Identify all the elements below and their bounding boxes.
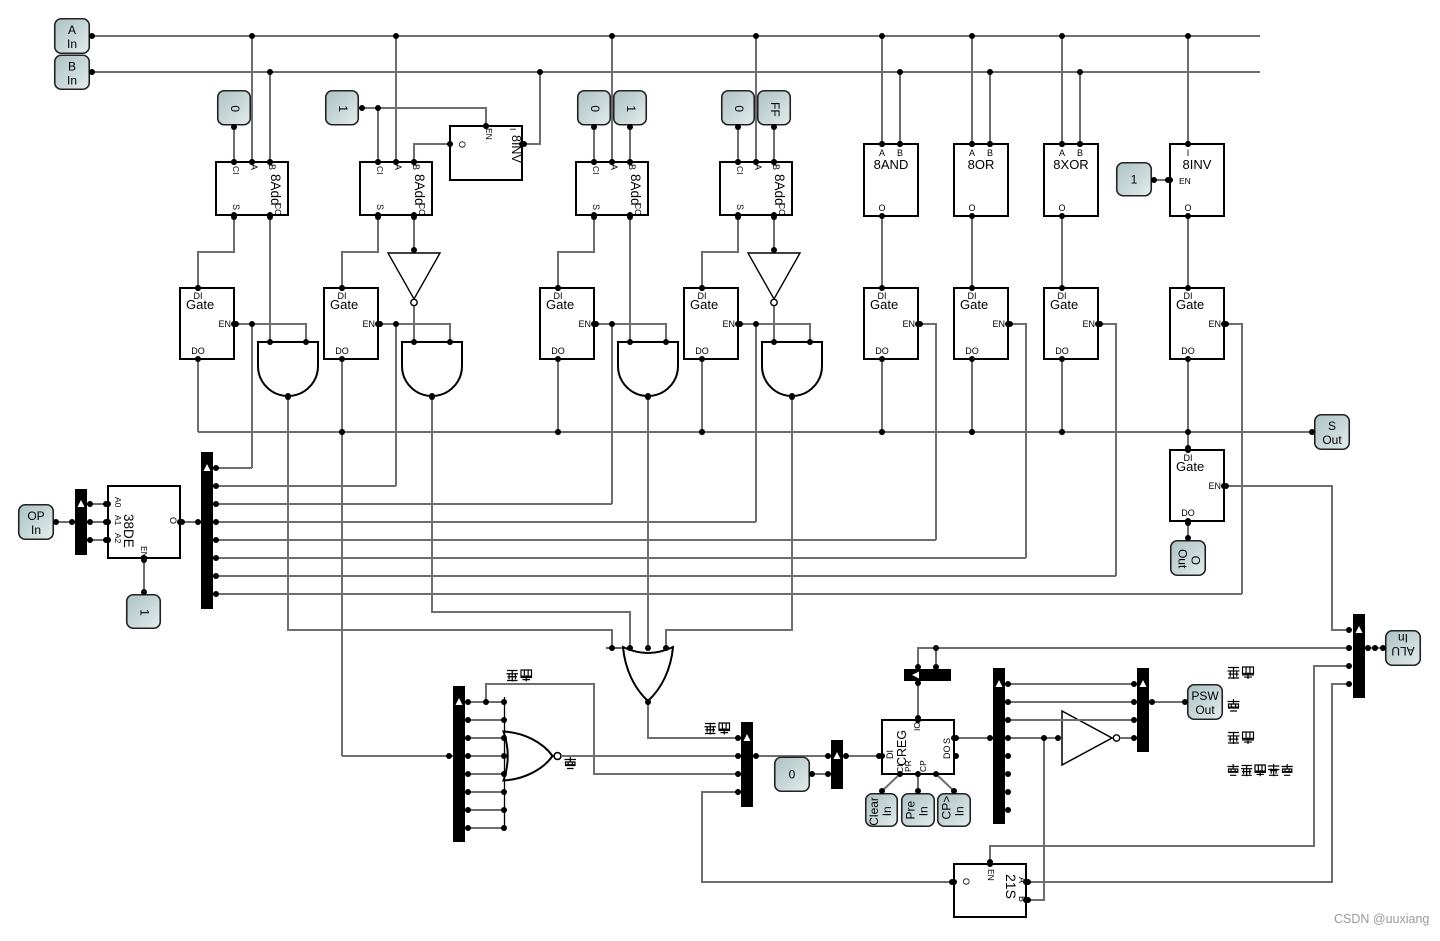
svg-text:8Add: 8Add	[628, 174, 643, 206]
wire const0 to CI3	[593, 126, 595, 162]
svg-text:Gate: Gate	[330, 297, 358, 312]
svg-text:A: A	[393, 164, 403, 170]
wire 8XOR O to Gate DI	[1061, 216, 1063, 288]
tri-state Gate 2	[324, 288, 378, 359]
wire A bus to pin x=972	[971, 36, 973, 144]
wire A bus to pin x=1188	[1187, 36, 1189, 144]
svg-text:8Add: 8Add	[268, 174, 283, 206]
wire splitter to 38DE A2	[87, 539, 108, 541]
wire 38DE EN to const 1	[143, 558, 145, 594]
wire AND4 out to OR input 4	[666, 396, 792, 648]
logic block 8INV	[1170, 144, 1224, 216]
wire B bus to pin x=990	[989, 72, 991, 144]
constant 1 (8INV enable)	[1117, 163, 1152, 196]
constant 0 (pair 3)	[578, 91, 611, 125]
wire B bus	[90, 71, 1260, 73]
label 零 (zero) rotated	[565, 757, 577, 769]
svg-text:A: A	[753, 164, 763, 170]
svg-text:Gate: Gate	[1176, 459, 1204, 474]
tri-state Gate 5	[864, 288, 918, 359]
svg-text:EN: EN	[484, 128, 494, 140]
constant 0 (PSW pad)	[775, 757, 810, 791]
svg-text:OP: OP	[27, 509, 44, 523]
tri-state Gate 4	[684, 288, 738, 359]
svg-text:EN: EN	[1208, 319, 1221, 329]
svg-text:DO: DO	[551, 346, 565, 356]
svg-text:EN: EN	[992, 319, 1005, 329]
svg-text:EN: EN	[578, 319, 591, 329]
logic block 8AND	[864, 144, 918, 216]
input port CP> In	[938, 794, 971, 827]
svg-text:EN: EN	[902, 319, 915, 329]
svg-text:S: S	[231, 204, 241, 210]
wire PSW nibble to pad splitter	[753, 755, 831, 757]
wire B bus to pin x=900	[899, 72, 901, 144]
output port S Out	[1315, 415, 1350, 450]
wire Gate4 EN net	[738, 324, 810, 342]
svg-text:In: In	[67, 73, 77, 87]
wire zero splitter row7	[465, 809, 504, 811]
NOR gate (zero detect)	[504, 697, 562, 831]
wire status bit3 to PSW-out splitter	[1005, 719, 1134, 721]
splitter status 8-bit	[993, 668, 1005, 824]
wire status bit1 to PSW-out splitter	[1005, 683, 1134, 685]
constant 1 (pair 3)	[614, 91, 647, 125]
inverter NOT (carry pair 4)	[748, 253, 800, 306]
svg-text:Out: Out	[1322, 433, 1342, 447]
svg-text:DO: DO	[1181, 346, 1195, 356]
wire Gate7 DO to S bus	[1061, 359, 1063, 432]
wire Gate4 DO to S bus	[701, 359, 703, 432]
wire const1 to 8INV EN	[1152, 179, 1170, 181]
svg-text:CI: CI	[735, 166, 745, 175]
wire 8INV O to Gate DI	[1187, 216, 1189, 288]
wire 8OR O to Gate DI	[971, 216, 973, 288]
wire zero splitter row6	[465, 791, 504, 793]
svg-text:1: 1	[138, 609, 152, 616]
adder 8Add #2	[360, 162, 432, 216]
wire Pre In to CREG PR	[917, 774, 919, 791]
wire A bus to pin x=612	[611, 36, 613, 162]
tri-state Gate 1	[180, 288, 234, 359]
splitter zero-detect 8-bit	[453, 686, 465, 842]
wire to CI2	[377, 108, 379, 162]
wire Gate8 EN to decoder row 8	[1224, 324, 1242, 594]
svg-text:A: A	[68, 23, 76, 37]
constant 1 (pair 2)	[326, 91, 359, 125]
wire Gate3 DO to S bus	[557, 359, 559, 432]
svg-text:ALU: ALU	[1391, 644, 1414, 658]
svg-text:DO: DO	[965, 346, 979, 356]
svg-text:B: B	[627, 164, 637, 170]
wire splitter to 38DE A0	[87, 503, 108, 505]
svg-text:21S: 21S	[1003, 874, 1019, 899]
input port ALU In	[1386, 631, 1421, 666]
wire parity tap (row1 to PSW splitter)	[486, 684, 741, 774]
svg-text:8XOR: 8XOR	[1053, 157, 1088, 172]
wire S4 to Gate4 DI	[702, 215, 738, 288]
svg-text:Out: Out	[1176, 549, 1190, 569]
svg-text:0: 0	[228, 105, 242, 112]
svg-text:0: 0	[588, 105, 602, 112]
svg-text:EN: EN	[1179, 176, 1191, 186]
svg-text:Pre: Pre	[904, 800, 918, 819]
splitter decoder 8-bit	[201, 452, 213, 609]
svg-text:S: S	[735, 204, 745, 210]
wire Gate5 EN to decoder row 5	[918, 324, 936, 540]
input port OP In	[19, 505, 54, 540]
svg-text:CI: CI	[231, 166, 241, 175]
wire AND1 out to OR input 1	[288, 396, 612, 648]
svg-text:DO: DO	[695, 346, 709, 356]
adder 8Add #3	[576, 162, 648, 216]
tri-state Gate 3	[540, 288, 594, 359]
wire EN4 to decoder row 4	[755, 324, 757, 522]
svg-text:EN: EN	[986, 869, 996, 881]
wire 8AND O to Gate DI	[881, 216, 883, 288]
wire Gate1 EN net	[234, 324, 306, 342]
wire zero splitter row3	[465, 737, 504, 739]
svg-text:0: 0	[732, 105, 746, 112]
wire B bus to pin x=270	[269, 72, 271, 162]
label 溢出 (overflow flag)	[1228, 667, 1255, 679]
svg-text:IO: IO	[912, 722, 922, 731]
wire A bus	[90, 35, 1260, 37]
wire zero splitter row1	[465, 701, 504, 703]
svg-text:O: O	[961, 878, 971, 885]
wire inverter out to AND2	[413, 306, 415, 342]
constant 0 (pair 1)	[218, 91, 251, 125]
input port Pre In	[902, 794, 935, 827]
svg-text:1: 1	[1131, 172, 1138, 186]
wire zero splitter row4	[465, 755, 504, 757]
svg-text:38DE: 38DE	[121, 514, 136, 548]
wire decoder row y=576	[213, 575, 1116, 577]
svg-text:8OR: 8OR	[968, 157, 995, 172]
wire S1 to Gate1 DI	[198, 215, 234, 288]
inverter NOT (carry pair 2)	[388, 253, 440, 306]
wire Gate6 EN to decoder row 6	[1008, 324, 1026, 558]
wire const0 to pad splitter	[810, 773, 831, 775]
wire EN1 to decoder row 1	[251, 324, 253, 468]
svg-text:FF: FF	[768, 102, 782, 117]
svg-text:CI: CI	[375, 166, 385, 175]
svg-text:I: I	[508, 128, 518, 130]
wire decoder row y=540	[213, 539, 936, 541]
tri-state Gate 9 (output)	[1170, 450, 1224, 521]
8INV B-inverter (pair 2)	[450, 126, 523, 180]
wire const1 to CI2 and 8INV EN	[360, 108, 486, 126]
svg-text:O: O	[1058, 203, 1065, 213]
wire const0 to CI4	[737, 126, 739, 162]
label 零 (zero flag)	[1228, 699, 1240, 711]
svg-text:8Add: 8Add	[772, 174, 787, 206]
wire CP> In to CREG CP	[936, 774, 954, 791]
wire S2 to Gate2 DI	[342, 215, 378, 288]
wire CO4 to inverter	[773, 215, 775, 252]
svg-text:DO: DO	[875, 346, 889, 356]
svg-text:CP>: CP>	[940, 796, 954, 820]
wire NOR out to PSW splitter (zero bit)	[561, 755, 741, 757]
wire PSW byte to CREG DI	[843, 755, 882, 757]
label 中断允许位 (interrupt enable bit)	[1228, 764, 1293, 776]
wire EN3 to decoder row 3	[611, 324, 613, 504]
wire const1 to B3	[629, 126, 631, 162]
OR gate (overflow detect)	[606, 647, 673, 701]
wire constFF to B4	[773, 126, 775, 162]
wire zero splitter row5	[465, 773, 504, 775]
wire Gate2 DO to S bus and zero splitter	[341, 359, 343, 756]
decoder 38DE	[108, 486, 180, 558]
selector 21S	[954, 864, 1027, 917]
wire status bit4 to inverter	[1005, 737, 1060, 739]
svg-text:EN: EN	[1208, 481, 1221, 491]
splitter PSW pad 8-bit	[831, 740, 843, 789]
wire 21S EN from ALU-In splitter row3	[990, 666, 1349, 864]
svg-text:CI: CI	[591, 166, 601, 175]
svg-text:B: B	[411, 164, 421, 170]
wire decoder row y=504	[213, 503, 612, 505]
wire splitter to ALU In port	[1365, 647, 1385, 649]
splitter CREG IO 2-bit	[904, 669, 951, 681]
svg-text:O: O	[968, 203, 975, 213]
svg-text:0: 0	[789, 767, 796, 781]
svg-text:Clear: Clear	[867, 797, 881, 826]
wire Clear In to CREG CI	[882, 774, 900, 791]
wire S bus	[198, 431, 1314, 433]
input port B In	[55, 55, 90, 89]
wire CREG S to status splitter	[954, 737, 993, 739]
splitter PSW-out combine 4-bit	[1137, 668, 1149, 752]
wire inverter out to PSW-out splitter	[1120, 737, 1134, 739]
wire splitter stub	[935, 648, 937, 669]
svg-text:In: In	[1398, 631, 1408, 645]
wire B bus to pin x=1080	[1079, 72, 1081, 144]
svg-text:S: S	[1328, 419, 1336, 433]
wire B bus to 8INV input	[522, 72, 540, 144]
AND gate (pair 3)	[618, 342, 678, 396]
svg-text:S: S	[375, 204, 385, 210]
wire 38DE O to splitter	[180, 521, 201, 523]
svg-text:Gate: Gate	[1050, 297, 1078, 312]
svg-text:O: O	[1184, 203, 1191, 213]
wire splitter to CREG IO	[917, 681, 919, 720]
svg-text:A0: A0	[113, 497, 123, 508]
input port A In	[55, 19, 90, 54]
AND gate (pair 1)	[258, 342, 318, 396]
wire 21S O to PSW splitter (interrupt bit)	[702, 792, 954, 882]
svg-text:8INV: 8INV	[509, 135, 523, 163]
svg-text:EN: EN	[362, 319, 375, 329]
inverter NOT (status bit4)	[1062, 711, 1120, 765]
output port O Out	[1171, 541, 1206, 576]
wire Gate8 DO to S bus / Gate9 DI	[1187, 359, 1189, 450]
wire A bus to pin x=396	[395, 36, 397, 162]
tri-state Gate 6	[954, 288, 1008, 359]
splitter OP 3-bit	[75, 489, 87, 555]
wire AND2 out to OR input 2	[432, 396, 630, 648]
svg-text:DI: DI	[885, 750, 895, 759]
wire A bus to pin x=756	[755, 36, 757, 162]
svg-text:A: A	[249, 164, 259, 170]
constant 0 (pair 4)	[722, 91, 755, 125]
wire decoder row y=558	[213, 557, 1026, 559]
wire Gate1 DO to S bus	[197, 359, 199, 432]
wire zero splitter row2	[465, 719, 504, 721]
splitter row dots	[0, 0, 1, 1]
adder 8Add #1	[216, 162, 288, 216]
wire Gate2 EN net	[378, 324, 450, 342]
svg-text:Gate: Gate	[186, 297, 214, 312]
wire Gate9 EN to ALU-In splitter row1	[1224, 486, 1349, 630]
wire decoder row y=594	[213, 593, 1242, 595]
wire A bus to pin x=252	[251, 36, 253, 162]
wire Gate5 DO to S bus	[881, 359, 883, 432]
wire 21S B from status bit4	[1026, 738, 1044, 900]
constant 1 (38DE enable)	[127, 595, 161, 629]
unconnected status stubs	[0, 0, 1, 1]
svg-text:8INV: 8INV	[1183, 157, 1212, 172]
svg-text:DO: DO	[335, 346, 349, 356]
svg-text:S: S	[942, 738, 952, 744]
wire zero splitter row8	[465, 827, 504, 829]
splitter PSW combine 4-bit	[741, 722, 753, 807]
svg-text:CP: CP	[918, 760, 928, 772]
svg-text:O: O	[878, 203, 885, 213]
wire status bit2 to PSW-out splitter	[1005, 701, 1134, 703]
svg-text:O: O	[168, 517, 178, 524]
wire Gate6 DO to S bus	[971, 359, 973, 432]
svg-text:1: 1	[624, 105, 638, 112]
svg-text:B: B	[267, 164, 277, 170]
logic block 8XOR	[1044, 144, 1098, 216]
svg-text:DO: DO	[191, 346, 205, 356]
svg-text:A: A	[609, 164, 619, 170]
svg-text:EN: EN	[218, 319, 231, 329]
svg-text:DO: DO	[1181, 508, 1195, 518]
svg-text:Gate: Gate	[870, 297, 898, 312]
svg-text:In: In	[67, 37, 77, 51]
wire Gate7 EN to decoder row 7	[1098, 324, 1116, 576]
wire CO3 to AND3	[629, 215, 631, 342]
wire Gate3 EN net	[594, 324, 666, 342]
wire 21S A from ALU-In splitter row4	[1026, 684, 1349, 882]
wire OR out to PSW splitter (overflow bit)	[648, 702, 741, 738]
wire S value to zero splitter	[342, 755, 453, 757]
wire CREG IO bus to ALU-In splitter row2	[918, 648, 1349, 669]
label 奇偶 (parity flag)	[1228, 732, 1255, 744]
svg-text:EN: EN	[722, 319, 735, 329]
constant FF (pair 4)	[758, 91, 791, 125]
wire PSW byte to PSW Out	[1149, 701, 1187, 703]
wire decoder row y=486	[213, 485, 396, 487]
svg-text:S: S	[591, 204, 601, 210]
wire splitter to 38DE A1	[87, 521, 108, 523]
wire EN2 to decoder row 2	[395, 324, 397, 486]
wire decoder row y=468	[213, 467, 252, 469]
wire AND3 out to OR input 3	[647, 396, 649, 648]
wire CO1 to AND1	[269, 215, 271, 342]
svg-text:8Add: 8Add	[412, 174, 427, 206]
svg-text:In: In	[953, 806, 967, 816]
OR gate output dot	[0, 0, 1, 1]
svg-text:PR: PR	[903, 760, 913, 772]
svg-text:8AND: 8AND	[874, 157, 909, 172]
wire inverter out to AND4	[773, 306, 775, 342]
svg-text:DO: DO	[1055, 346, 1069, 356]
wire A bus to pin x=1062	[1061, 36, 1063, 144]
svg-text:B: B	[68, 59, 76, 73]
svg-text:DO: DO	[942, 746, 952, 760]
adder 8Add #4	[720, 162, 792, 216]
tri-state Gate 8	[1170, 288, 1224, 359]
wire S3 to Gate3 DI	[558, 215, 594, 288]
tri-state Gate 7	[1044, 288, 1098, 359]
svg-text:EN: EN	[1082, 319, 1095, 329]
output port PSW Out	[1188, 685, 1223, 720]
wire 8INV out to B2	[414, 144, 450, 162]
svg-text:In: In	[880, 806, 894, 816]
wire Gate9 DO to O Out	[1187, 521, 1189, 540]
wire OP In to splitter	[54, 521, 75, 523]
input port Clear In	[866, 794, 898, 827]
svg-text:Gate: Gate	[546, 297, 574, 312]
svg-text:CSDN @uuxiang: CSDN @uuxiang	[1334, 912, 1429, 926]
wire A bus to pin x=882	[881, 36, 883, 144]
svg-text:O: O	[457, 141, 467, 148]
register CREG	[882, 720, 954, 774]
logic block 8OR	[954, 144, 1008, 216]
svg-text:In: In	[31, 523, 41, 537]
splitter ALU-In 4-bit	[1353, 614, 1365, 698]
label 溢出 (overflow)	[705, 723, 731, 735]
wire decoder row y=522	[213, 521, 756, 523]
svg-text:1: 1	[336, 105, 350, 112]
svg-text:PSW: PSW	[1191, 689, 1219, 703]
AND gate (pair 2)	[402, 342, 462, 396]
wire CO2 to inverter	[413, 215, 415, 252]
svg-text:Gate: Gate	[960, 297, 988, 312]
wire const0 to CI1	[233, 126, 235, 162]
svg-text:B: B	[771, 164, 781, 170]
svg-text:O: O	[1189, 556, 1203, 565]
svg-text:Gate: Gate	[1176, 297, 1204, 312]
AND gate (pair 4)	[762, 342, 822, 396]
svg-text:In: In	[917, 806, 931, 816]
svg-text:Gate: Gate	[690, 297, 718, 312]
svg-text:Out: Out	[1195, 703, 1215, 717]
label 奇偶 (parity)	[507, 670, 533, 682]
